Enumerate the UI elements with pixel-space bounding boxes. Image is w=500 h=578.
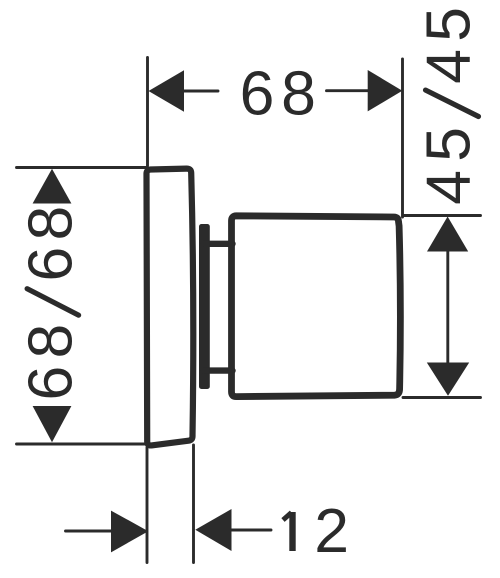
arrow dim68/68 down (33, 406, 72, 442)
dim 45/45 right: top extension line (404, 214, 481, 217)
dim 68/68 left: bottom extension line (17, 443, 147, 446)
svg-text:45: 45 (414, 0, 484, 84)
arrow dim12 left (points right) (111, 511, 148, 553)
dim 12 bottom: left extension line (146, 448, 149, 563)
label 12 digit 1 (drawn, no foot serif) (283, 512, 293, 551)
dim 68 top: left tail (184, 90, 218, 93)
svg-text:68: 68 (16, 200, 86, 282)
label 45/45 (right, rotated) (414, 0, 484, 205)
svg-text:2: 2 (314, 496, 349, 566)
neck bottom edge (204, 367, 233, 373)
escutcheon plate (side view) (147, 169, 194, 446)
label 68/68 (left, rotated) (16, 200, 86, 401)
arrow dim68 left (points left) (149, 70, 185, 111)
sleeve between plate and handle (solid bar) (199, 224, 210, 389)
dim 68 top: right tail (327, 89, 369, 92)
dim 12 bottom: right tail (232, 529, 272, 532)
dim 12 bottom: left tail (66, 530, 112, 533)
arrow dim68/68 up (33, 169, 72, 204)
neck top edge (204, 241, 233, 247)
handle (side view) (232, 216, 401, 397)
svg-text:45: 45 (414, 119, 484, 205)
arrow dim45 up (427, 217, 468, 252)
arrow dim68 right (points right) (368, 70, 403, 111)
dim 45/45 right: bottom extension line (403, 396, 481, 399)
dim 68/68 left: top extension line (17, 166, 147, 169)
arrow dim45 down (427, 363, 469, 396)
svg-text:68: 68 (240, 59, 323, 129)
dim 45/45 right: dimension line (446, 250, 449, 364)
svg-text:68: 68 (16, 317, 86, 401)
dim 68 top: right extension line (401, 59, 404, 217)
dim 12 bottom: right extension line (192, 445, 195, 563)
dim 68 top: left extension line (146, 58, 149, 167)
arrow dim12 right (points left) (195, 509, 231, 551)
